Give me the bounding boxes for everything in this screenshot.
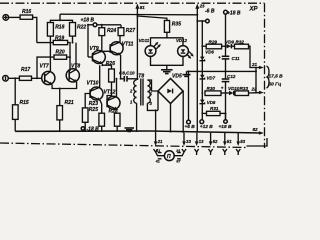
emitter common wire [52,82,77,89]
wire [33,17,37,42]
0V line [187,70,257,72]
zener VD8 [200,100,216,105]
resistor R32 [235,39,249,48]
svg-text:С12: С12 [227,74,236,79]
svg-text:50 Гц: 50 Гц [269,82,282,88]
zener VD7 [200,75,216,81]
bridge rectifier VD5 [158,74,183,104]
wires resistors to rail [84,122,86,131]
svg-text:R24: R24 [107,28,116,34]
VT11 emitter down [120,55,122,79]
resistor R28 [109,108,121,126]
ground bars on rail [125,128,135,132]
+18V top terminal [224,10,241,46]
svg-text:+18 В: +18 В [81,18,95,24]
cable line bottom right [247,138,268,146]
svg-text:VD11: VD11 [139,38,150,43]
svg-text:+: + [221,86,224,91]
row wire with R19 [37,42,54,44]
svg-text:R28: R28 [109,108,118,114]
svg-text:R20: R20 [56,50,65,56]
VT10 emitter to R25 [100,100,102,113]
module boundary top [0,2,265,4]
svg-text:51: 51 [227,139,232,144]
pin arrow 21 [251,62,264,69]
transistor VT12 [104,90,121,110]
pin arrow 81 up [135,4,145,18]
svg-text:VT7: VT7 [40,64,49,70]
wire [68,43,70,71]
transistor VT11 [110,41,133,55]
resistor R18 [47,23,64,37]
resistor R15 [13,100,29,120]
wire R26 bottom to VT12 base [107,82,111,99]
svg-text:33: 33 [186,139,191,144]
top rail [60,13,197,16]
row R29 VD9 R32 [202,45,206,47]
wire R18 bottom to VT7 collector [49,36,51,71]
wire R22 bottom to VT8 collector [72,36,74,43]
bridge bottom to rail [170,104,172,133]
VT9 emitter node wire [102,64,111,69]
svg-text:VT11: VT11 [122,41,134,47]
-18V terminal [81,127,99,133]
wire to pin 21 [249,46,261,67]
+18V terminal [81,18,97,27]
diode VD10 [228,86,240,95]
secondary bottom to pin 21 [147,103,158,110]
svg-text:R33: R33 [240,86,249,91]
bottom pin arrows [154,132,163,146]
resistor R21 [57,100,74,120]
resistor R17 [19,67,31,80]
resistor R29 [206,39,221,48]
svg-text:41: 41 [155,159,160,163]
LED VD11 [139,38,161,57]
primary bottom to rail [136,103,138,132]
wire down to VT9 base [87,25,89,57]
svg-text:-18 В: -18 В [87,127,100,133]
capacitor C11 [218,46,240,71]
svg-text:VD5: VD5 [172,74,182,80]
riser to top rail [59,14,61,20]
svg-text:ХР: ХР [249,7,259,13]
AC label [267,66,284,88]
resistor R22 [70,23,87,37]
svg-text:82: 82 [253,127,259,132]
svg-text:R15: R15 [20,100,29,106]
svg-text:R18: R18 [55,25,64,31]
svg-text:VD8: VD8 [207,100,216,105]
svg-text:VD6: VD6 [205,49,214,54]
svg-text:VD10: VD10 [228,86,240,91]
svg-text:21: 21 [251,62,258,67]
VT10 base wire to R23 [85,94,90,108]
node [59,19,61,21]
svg-text:+18 В: +18 В [219,124,232,130]
bridge right to pin 33 [182,91,184,133]
svg-text:13: 13 [199,139,204,144]
LED box wires [151,38,184,46]
svg-text:R35: R35 [172,21,181,27]
svg-text:R25: R25 [89,107,98,113]
module boundary bottom [0,143,248,148]
svg-text:VT9: VT9 [90,46,99,52]
svg-text:С8,С10: С8,С10 [119,71,135,76]
transformer T8 [129,74,153,107]
svg-text:VD9: VD9 [225,39,234,44]
svg-text:52: 52 [213,139,218,144]
svg-text:Б1: Б1 [156,149,161,153]
+12V terminal [200,120,213,130]
wire [59,120,61,132]
svg-text:+: + [218,55,221,60]
resistor R30 [205,86,221,96]
resistor R16 [20,9,32,19]
svg-text:+12 В: +12 В [200,124,213,130]
transistor VT9 [90,46,106,64]
resistor R26 [106,61,115,82]
+6V terminal [185,70,196,130]
svg-text:VD12: VD12 [176,38,188,43]
zener VD6 [200,49,215,60]
wire rail to R35 [137,16,167,21]
wire [14,119,16,131]
svg-text:-6 В: -6 В [205,9,215,15]
transistor VT7 [40,64,55,85]
+18V wire to R24 R27 [88,24,93,26]
svg-text:R32: R32 [236,39,245,44]
secondary top to bridge [147,80,158,91]
svg-text:R29: R29 [209,39,218,44]
VT12 collector up to cap line [116,79,118,97]
bottom rail [15,131,260,133]
svg-text:R19: R19 [55,36,64,42]
resistor R35 [164,21,181,38]
resistor R19 [53,36,67,45]
svg-text:81: 81 [176,149,180,153]
transistor VT10 [87,80,104,100]
connector forks [154,149,241,155]
resistor R23 [82,101,98,123]
wire from top rail down to transformer [136,14,138,80]
wire R20 left to VT7 base [37,57,54,78]
wire to pin 22 [249,92,261,94]
input terminal 2 [3,76,9,82]
module boundary right [264,3,266,148]
wire R24 bottom node [102,36,110,52]
svg-text:21: 21 [157,139,163,144]
lamp P [155,149,184,163]
ground under LEDs [161,65,173,73]
svg-text:R30: R30 [207,86,216,91]
capacitor C8,C10 [116,71,138,82]
svg-text:+18 В: +18 В [227,11,241,17]
ground on 0V line [183,71,191,76]
svg-text:R27: R27 [126,28,135,34]
svg-text:R22: R22 [77,25,86,31]
diode VD9 [225,39,234,48]
node [14,77,16,79]
zener chain line [201,21,203,120]
resistor R24 [99,28,116,36]
LED VD12 [176,38,194,59]
wire [9,16,21,18]
node [49,42,51,44]
wire R20 right [67,56,70,58]
svg-text:+6 В: +6 В [185,124,196,130]
wire R27 bottom to VT11 collector [119,36,121,42]
svg-text:R21: R21 [65,100,74,106]
wire to VT7 base [32,77,42,79]
svg-text:R17: R17 [21,67,30,73]
svg-text:С11: С11 [232,56,241,61]
wire top of R18/R22 [50,20,72,22]
resistor R31 [202,106,225,115]
pin arrow 23 up [195,3,205,8]
svg-text:VT8: VT8 [71,64,80,70]
pin line 23/13 [196,6,198,133]
resistor R20 [54,50,67,60]
transistor VT8 [66,64,80,83]
+18V terminal bottom [219,113,232,130]
svg-text:VT10: VT10 [87,80,99,86]
pin arrow 82 [253,127,264,135]
svg-text:22: 22 [251,86,258,91]
svg-text:R26: R26 [106,61,115,67]
svg-text:81: 81 [140,5,145,10]
wire down to R15 [14,78,16,105]
svg-text:VD7: VD7 [207,76,216,81]
pin arrow 22 [251,86,264,94]
svg-text:R23: R23 [89,101,98,107]
input terminal 1 [3,15,9,21]
svg-text:17,5 В: 17,5 В [269,74,284,80]
resistor R33 [235,86,249,96]
svg-text:53: 53 [240,139,245,144]
wire [8,77,19,79]
svg-text:П: П [167,154,171,160]
-6V terminal [196,9,215,23]
capacitor C12 [221,71,236,119]
resistor R25 [89,107,105,126]
svg-text:VT12: VT12 [104,90,116,96]
svg-text:R16: R16 [22,9,31,15]
resistor R27 [118,28,135,36]
svg-text:R31: R31 [210,106,219,111]
